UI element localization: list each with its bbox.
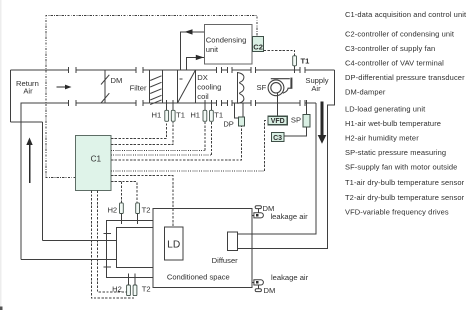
plenum wall joint ticks bbox=[104, 234, 111, 267]
svg-text:cooling: cooling bbox=[197, 83, 221, 92]
svg-text:C2-controller of condensing un: C2-controller of condensing unit bbox=[345, 30, 455, 39]
svg-text:Air: Air bbox=[311, 84, 321, 93]
wire C1 to T1 second dashed bbox=[111, 154, 211, 156]
svg-text:Air: Air bbox=[23, 87, 33, 96]
svg-text:unit: unit bbox=[206, 45, 219, 54]
damper DM leakage bottom bbox=[255, 289, 261, 292]
svg-text:LD-load generating unit: LD-load generating unit bbox=[345, 105, 426, 114]
duct top line bbox=[11, 69, 335, 71]
svg-text:SF-supply fan with motor outsi: SF-supply fan with motor outside bbox=[345, 163, 457, 172]
svg-text:H2: H2 bbox=[112, 284, 122, 293]
svg-text:leakage air: leakage air bbox=[271, 212, 309, 221]
svg-text:Diffuser: Diffuser bbox=[212, 256, 238, 265]
svg-text:T1-air dry-bulb temperature se: T1-air dry-bulb temperature sensor bbox=[345, 178, 465, 187]
svg-text:coil: coil bbox=[197, 92, 209, 101]
svg-text:VFD-variable frequency drives: VFD-variable frequency drives bbox=[345, 208, 449, 217]
wire C1 to H1 first dashed bbox=[111, 122, 167, 139]
duct joint break ticks bbox=[68, 67, 305, 106]
transducer DP bbox=[235, 103, 244, 118]
return riser jog bbox=[11, 121, 43, 123]
mixing plenum inner box bbox=[117, 227, 153, 267]
refrigerant liquid line with arrow bbox=[181, 32, 205, 70]
flow arrow in duct bbox=[57, 85, 72, 90]
sensor T1 second bbox=[210, 100, 212, 110]
svg-text:DX: DX bbox=[197, 73, 208, 82]
wire C1-C2 dash-dot route bbox=[46, 16, 257, 178]
wire C1 to VFD dashed bbox=[111, 170, 265, 172]
svg-text:Conditioned space: Conditioned space bbox=[167, 272, 230, 281]
svg-text:H1: H1 bbox=[152, 110, 162, 119]
svg-text:SF: SF bbox=[257, 83, 267, 92]
svg-text:C3-controller of supply fan: C3-controller of supply fan bbox=[345, 44, 435, 53]
wire C2 to T1 dashed bbox=[264, 50, 295, 55]
return riser outer wall bbox=[42, 122, 44, 240]
svg-text:H2-air humidity meter: H2-air humidity meter bbox=[345, 134, 419, 143]
svg-text:H1: H1 bbox=[190, 110, 200, 119]
leakage air fan top bbox=[254, 213, 263, 218]
svg-text:T2-air dry-bulb temperature se: T2-air dry-bulb temperature sensor bbox=[345, 193, 465, 202]
condensing unit bbox=[205, 25, 253, 64]
damper DM leakage top bbox=[255, 206, 261, 209]
fan SF bbox=[268, 78, 291, 96]
svg-text:SP-static pressure measuring: SP-static pressure measuring bbox=[345, 148, 446, 157]
mixing plenum outer bbox=[107, 221, 153, 278]
filter bbox=[149, 70, 162, 105]
svg-text:DM: DM bbox=[264, 286, 276, 295]
wire SP to C3 bbox=[284, 127, 307, 136]
svg-text:DM: DM bbox=[111, 76, 123, 85]
return riser inner wall bbox=[20, 103, 22, 259]
svg-text:C1-data acquisition and contro: C1-data acquisition and control unit bbox=[345, 10, 467, 19]
wire C1 to H2 bottom dashed bbox=[97, 191, 126, 292]
supply duct inner wall bbox=[238, 103, 316, 234]
wire C1 to LD dashed bbox=[111, 176, 173, 227]
svg-text:leakage air: leakage air bbox=[271, 273, 309, 282]
return duct to space top line bbox=[43, 239, 117, 241]
wire C1 to H1 second dashed bbox=[111, 150, 205, 152]
wire C1 to T1 first dashed bbox=[111, 122, 173, 145]
legend bbox=[345, 10, 467, 216]
duct bottom line bbox=[21, 102, 316, 104]
svg-text:T2: T2 bbox=[142, 284, 151, 293]
svg-text:C4-controller of VAV terminal: C4-controller of VAV terminal bbox=[345, 59, 444, 68]
wire C1 to T2 bottom dashed bbox=[91, 191, 134, 299]
svg-text:DP-differential pressure trans: DP-differential pressure transducer bbox=[345, 73, 465, 82]
refrigerant suction line with arrow bbox=[186, 57, 204, 70]
controller C2 bbox=[253, 37, 264, 52]
wire fan to VFD bbox=[277, 93, 279, 116]
sensor T1 first bbox=[172, 100, 174, 110]
svg-text:DP: DP bbox=[223, 120, 234, 129]
sensor T2 top bbox=[136, 203, 140, 214]
up arrow in return riser bbox=[26, 138, 32, 184]
damper DM bbox=[101, 70, 109, 103]
wire C1 to DP dashed bbox=[111, 126, 242, 160]
svg-text:T1: T1 bbox=[301, 57, 311, 66]
DX cooling coil bbox=[178, 70, 196, 103]
wire C1 to H2 T2 top dashed bbox=[111, 182, 137, 203]
return air left wall bbox=[10, 70, 12, 122]
svg-text:C2: C2 bbox=[253, 43, 263, 52]
svg-text:H1-air wet-bulb temperature: H1-air wet-bulb temperature bbox=[345, 119, 441, 128]
svg-text:T1: T1 bbox=[176, 110, 185, 119]
load generating unit LD bbox=[165, 227, 184, 260]
sensor SP bbox=[305, 100, 307, 115]
svg-text:T2: T2 bbox=[142, 205, 151, 214]
svg-text:C3: C3 bbox=[273, 135, 282, 142]
svg-text:LD: LD bbox=[167, 240, 180, 251]
diffuser bbox=[227, 232, 237, 251]
return duct to space bottom line bbox=[21, 258, 117, 260]
svg-text:Condensing: Condensing bbox=[206, 35, 247, 44]
svg-text:Filter: Filter bbox=[130, 84, 147, 93]
left edge scan shading bbox=[0, 0, 2, 310]
svg-text:C1: C1 bbox=[91, 155, 102, 164]
sensor T1 supply bbox=[293, 56, 297, 66]
svg-text:T1: T1 bbox=[214, 110, 223, 119]
supply down arrow bbox=[318, 102, 327, 144]
controller C1 bbox=[76, 136, 111, 191]
VFD drive bbox=[268, 116, 287, 124]
controller C3 bbox=[271, 133, 284, 142]
sensor T2 bottom bbox=[133, 285, 137, 296]
svg-text:SP: SP bbox=[291, 116, 301, 125]
svg-text:H2: H2 bbox=[107, 205, 117, 214]
supply duct outer wall bbox=[238, 70, 335, 249]
svg-text:DM-damper: DM-damper bbox=[345, 88, 386, 97]
conditioned space bbox=[153, 209, 252, 288]
svg-text:VFD: VFD bbox=[271, 118, 285, 125]
flexible joint bbox=[237, 72, 244, 103]
